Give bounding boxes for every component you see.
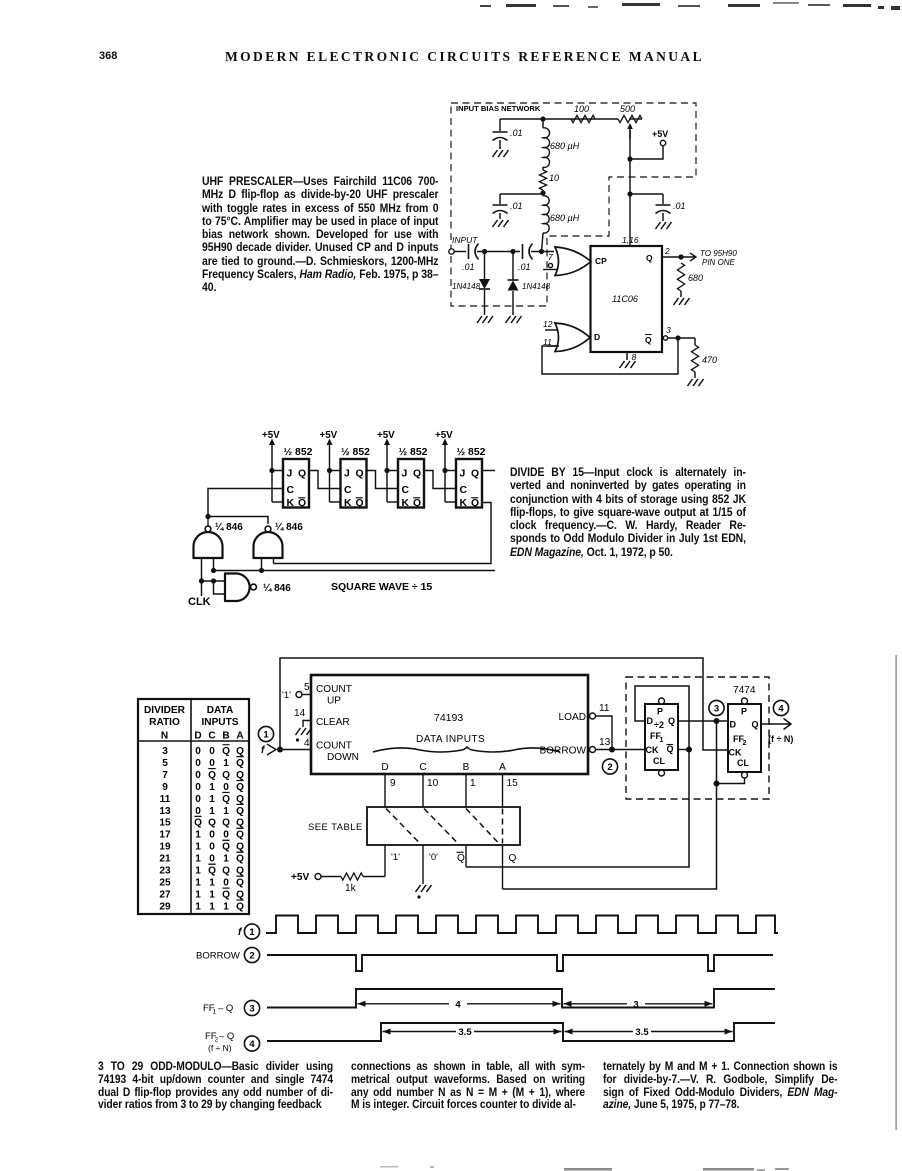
svg-text:CL: CL xyxy=(653,756,665,766)
svg-text:0: 0 xyxy=(223,782,229,793)
svg-text:8: 8 xyxy=(632,352,637,362)
svg-text:680: 680 xyxy=(688,273,703,283)
svg-text:'1': '1' xyxy=(391,852,400,863)
svg-text:TO 95H90: TO 95H90 xyxy=(700,249,737,258)
svg-text:D: D xyxy=(194,731,201,742)
svg-text:1: 1 xyxy=(195,854,201,865)
svg-text:Q: Q xyxy=(667,744,674,754)
svg-text:D: D xyxy=(730,720,737,730)
svg-text:Q: Q xyxy=(236,806,244,817)
svg-text:Q: Q xyxy=(236,746,244,757)
svg-text:0: 0 xyxy=(223,877,229,888)
svg-text:13: 13 xyxy=(599,737,611,748)
svg-text:Q: Q xyxy=(236,758,244,769)
svg-text:SQUARE WAVE ÷ 15: SQUARE WAVE ÷ 15 xyxy=(331,581,432,593)
svg-text:(f ÷ N): (f ÷ N) xyxy=(768,734,793,744)
svg-text:3: 3 xyxy=(633,999,638,1010)
svg-text:D: D xyxy=(647,716,654,726)
svg-text:Q: Q xyxy=(356,498,364,509)
svg-text:PIN ONE: PIN ONE xyxy=(702,258,736,267)
svg-text:C: C xyxy=(287,485,295,496)
svg-text:.01: .01 xyxy=(510,128,523,138)
svg-text:2: 2 xyxy=(743,740,747,747)
svg-text:+5V: +5V xyxy=(377,430,395,441)
svg-text:B: B xyxy=(463,762,470,773)
svg-text:'1': '1' xyxy=(282,690,291,701)
svg-text:Q: Q xyxy=(222,818,230,829)
svg-text:1: 1 xyxy=(195,889,201,900)
svg-text:23: 23 xyxy=(159,866,171,877)
svg-text:1: 1 xyxy=(195,866,201,877)
svg-text:f: f xyxy=(238,927,243,938)
svg-text:D: D xyxy=(594,332,600,342)
svg-text:7: 7 xyxy=(162,770,168,781)
svg-text:100: 100 xyxy=(574,104,589,114)
svg-text:CK: CK xyxy=(646,745,659,755)
svg-text:17: 17 xyxy=(159,830,171,841)
svg-text:0: 0 xyxy=(209,758,215,769)
svg-text:C: C xyxy=(402,485,410,496)
svg-text:CLEAR: CLEAR xyxy=(316,717,350,728)
svg-text:¼ 846: ¼ 846 xyxy=(263,583,291,594)
svg-text:¼ 846: ¼ 846 xyxy=(215,522,243,533)
svg-text:Q: Q xyxy=(646,253,653,263)
svg-text:RATIO: RATIO xyxy=(149,717,180,728)
svg-text:0: 0 xyxy=(195,782,201,793)
svg-text:(f ÷ N): (f ÷ N) xyxy=(208,1043,232,1053)
svg-text:11: 11 xyxy=(599,703,610,714)
svg-text:0: 0 xyxy=(195,794,201,805)
svg-text:.01: .01 xyxy=(462,262,475,272)
svg-text:0: 0 xyxy=(209,830,215,841)
svg-text:INPUT BIAS NETWORK: INPUT BIAS NETWORK xyxy=(456,104,541,113)
svg-text:C: C xyxy=(208,731,216,742)
svg-text:1: 1 xyxy=(223,758,229,769)
svg-text:1: 1 xyxy=(195,842,201,853)
svg-text:DOWN: DOWN xyxy=(327,752,359,763)
svg-text:– Q: – Q xyxy=(219,1031,234,1042)
svg-text:680 µH: 680 µH xyxy=(550,213,580,223)
svg-text:J: J xyxy=(460,469,466,480)
svg-text:1: 1 xyxy=(209,806,215,817)
svg-text:Q: Q xyxy=(413,498,421,509)
svg-text:15: 15 xyxy=(159,818,171,829)
svg-text:A: A xyxy=(236,731,244,742)
svg-text:SEE TABLE: SEE TABLE xyxy=(308,821,363,832)
svg-text:0: 0 xyxy=(209,854,215,865)
svg-text:1: 1 xyxy=(223,854,229,865)
svg-text:1: 1 xyxy=(209,794,215,805)
svg-text:4: 4 xyxy=(304,738,310,749)
svg-text:2: 2 xyxy=(664,246,670,256)
svg-text:Q: Q xyxy=(457,853,465,864)
svg-text:K: K xyxy=(287,498,295,509)
svg-text:K: K xyxy=(402,498,410,509)
svg-text:'0': '0' xyxy=(429,852,438,863)
svg-text:3: 3 xyxy=(162,746,168,757)
svg-text:CP: CP xyxy=(595,256,607,266)
svg-text:P: P xyxy=(657,707,663,717)
svg-text:1: 1 xyxy=(263,729,269,740)
svg-text:+5V: +5V xyxy=(652,129,668,139)
svg-text:Q: Q xyxy=(236,866,244,877)
svg-text:D: D xyxy=(381,762,388,773)
svg-text:Q: Q xyxy=(236,854,244,865)
svg-text:12: 12 xyxy=(543,319,553,329)
svg-text:15: 15 xyxy=(507,778,519,789)
svg-text:1: 1 xyxy=(209,877,215,888)
svg-text:BORROW: BORROW xyxy=(539,746,586,757)
svg-text:680 µH: 680 µH xyxy=(550,141,580,151)
svg-text:29: 29 xyxy=(159,901,171,912)
svg-text:3: 3 xyxy=(666,325,671,335)
svg-text:1: 1 xyxy=(660,737,664,744)
svg-text:1k: 1k xyxy=(345,883,357,894)
svg-text:CLK: CLK xyxy=(188,596,211,608)
svg-text:INPUTS: INPUTS xyxy=(201,717,238,728)
svg-text:4: 4 xyxy=(778,703,784,714)
svg-text:0: 0 xyxy=(195,770,201,781)
svg-text:Q: Q xyxy=(236,877,244,888)
svg-text:21: 21 xyxy=(159,854,171,865)
svg-text:Q: Q xyxy=(471,498,479,509)
svg-text:+5V: +5V xyxy=(320,430,338,441)
svg-text:Q: Q xyxy=(298,469,306,480)
svg-text:Q: Q xyxy=(222,842,230,853)
svg-text:Q: Q xyxy=(413,469,421,480)
svg-text:3: 3 xyxy=(714,703,719,714)
svg-text:Q: Q xyxy=(236,889,244,900)
svg-text:1: 1 xyxy=(213,1009,217,1016)
svg-text:9: 9 xyxy=(390,778,396,789)
svg-text:Q: Q xyxy=(236,842,244,853)
svg-text:0: 0 xyxy=(209,746,215,757)
svg-text:÷2: ÷2 xyxy=(654,720,664,730)
svg-text:Q: Q xyxy=(222,746,230,757)
svg-text:N: N xyxy=(161,731,168,742)
svg-text:Q: Q xyxy=(471,469,479,480)
svg-text:½ 852: ½ 852 xyxy=(284,447,313,458)
svg-text:0: 0 xyxy=(195,758,201,769)
svg-text:Q: Q xyxy=(208,818,216,829)
svg-text:Q: Q xyxy=(222,770,230,781)
svg-text:Q: Q xyxy=(208,770,216,781)
svg-text:1: 1 xyxy=(223,806,229,817)
svg-text:Q: Q xyxy=(222,794,230,805)
svg-text:1: 1 xyxy=(470,778,476,789)
svg-text:K: K xyxy=(460,498,468,509)
svg-text:LOAD: LOAD xyxy=(559,712,587,723)
svg-text:5: 5 xyxy=(162,758,168,769)
svg-text:Q: Q xyxy=(509,853,517,864)
svg-text:Q: Q xyxy=(236,818,244,829)
svg-text:7: 7 xyxy=(548,252,553,262)
svg-text:Q: Q xyxy=(668,716,675,726)
svg-text:3: 3 xyxy=(249,1003,254,1014)
svg-text:Q: Q xyxy=(645,335,652,345)
svg-text:Q: Q xyxy=(236,794,244,805)
svg-text:1: 1 xyxy=(195,877,201,888)
svg-text:1: 1 xyxy=(195,901,201,912)
svg-text:CK: CK xyxy=(729,748,742,758)
svg-text:J: J xyxy=(287,469,293,480)
svg-text:Q: Q xyxy=(194,818,202,829)
svg-text:.01: .01 xyxy=(510,201,523,211)
svg-text:B: B xyxy=(222,731,229,742)
svg-text:½ 852: ½ 852 xyxy=(399,447,428,458)
svg-text:7474: 7474 xyxy=(733,685,756,696)
svg-text:A: A xyxy=(499,762,506,773)
svg-text:C: C xyxy=(344,485,352,496)
svg-text:DIVIDER: DIVIDER xyxy=(144,705,186,716)
svg-text:Q: Q xyxy=(222,866,230,877)
svg-text:CL: CL xyxy=(737,758,749,768)
svg-text:+5V: +5V xyxy=(262,430,280,441)
svg-text:1: 1 xyxy=(249,927,255,938)
svg-text:27: 27 xyxy=(159,889,171,900)
svg-text:J: J xyxy=(402,469,408,480)
svg-text:Q: Q xyxy=(222,889,230,900)
svg-text:4: 4 xyxy=(249,1039,255,1050)
svg-text:74193: 74193 xyxy=(434,712,463,724)
svg-text:Q: Q xyxy=(236,901,244,912)
svg-text:1,16: 1,16 xyxy=(622,235,639,245)
svg-text:Q: Q xyxy=(208,866,216,877)
svg-text:f: f xyxy=(261,745,266,756)
svg-text:0: 0 xyxy=(195,746,201,757)
svg-text:3.5: 3.5 xyxy=(635,1027,649,1038)
svg-text:2: 2 xyxy=(249,950,254,961)
svg-text:500: 500 xyxy=(620,104,635,114)
svg-text:¼ 846: ¼ 846 xyxy=(275,522,303,533)
svg-text:J: J xyxy=(344,469,350,480)
svg-text:14: 14 xyxy=(294,708,306,719)
svg-text:0: 0 xyxy=(209,842,215,853)
svg-text:1: 1 xyxy=(209,782,215,793)
svg-text:1: 1 xyxy=(209,889,215,900)
svg-text:DATA INPUTS: DATA INPUTS xyxy=(416,734,485,745)
svg-text:470: 470 xyxy=(702,355,717,365)
svg-text:9: 9 xyxy=(162,782,168,793)
svg-text:.01: .01 xyxy=(518,262,531,272)
svg-text:DATA: DATA xyxy=(207,705,234,716)
svg-text:+5V: +5V xyxy=(435,430,453,441)
svg-text:10: 10 xyxy=(549,173,559,183)
svg-text:1N4148: 1N4148 xyxy=(522,282,551,291)
svg-text:C: C xyxy=(419,762,426,773)
svg-text:BORROW: BORROW xyxy=(196,951,240,962)
svg-text:25: 25 xyxy=(159,877,171,888)
svg-text:3.5: 3.5 xyxy=(458,1027,472,1038)
svg-text:UP: UP xyxy=(327,696,341,707)
svg-text:1: 1 xyxy=(195,830,201,841)
svg-text:1: 1 xyxy=(223,901,229,912)
svg-text:COUNT: COUNT xyxy=(316,741,352,752)
svg-text:½ 852: ½ 852 xyxy=(457,447,486,458)
svg-text:1: 1 xyxy=(209,901,215,912)
svg-text:INPUT: INPUT xyxy=(452,235,478,245)
svg-text:P: P xyxy=(741,707,747,717)
svg-text:10: 10 xyxy=(427,778,439,789)
svg-text:0: 0 xyxy=(195,806,201,817)
svg-text:Q: Q xyxy=(236,782,244,793)
svg-text:Q: Q xyxy=(236,830,244,841)
svg-text:½ 852: ½ 852 xyxy=(341,447,370,458)
svg-text:Q: Q xyxy=(236,770,244,781)
svg-text:5: 5 xyxy=(304,682,310,693)
svg-text:Q: Q xyxy=(356,469,364,480)
svg-text:– Q: – Q xyxy=(218,1003,233,1014)
svg-text:+5V: +5V xyxy=(291,872,310,883)
svg-text:19: 19 xyxy=(159,842,171,853)
svg-text:2: 2 xyxy=(607,762,612,773)
svg-text:1N4148: 1N4148 xyxy=(452,282,481,291)
svg-text:Q: Q xyxy=(298,498,306,509)
svg-text:13: 13 xyxy=(159,806,171,817)
svg-text:11C06: 11C06 xyxy=(612,294,638,304)
svg-text:.01: .01 xyxy=(673,201,686,211)
svg-text:C: C xyxy=(460,485,468,496)
svg-text:4: 4 xyxy=(455,999,461,1010)
svg-text:COUNT: COUNT xyxy=(316,684,352,695)
svg-text:Q: Q xyxy=(752,720,759,730)
svg-text:K: K xyxy=(344,498,352,509)
svg-text:11: 11 xyxy=(160,794,171,805)
svg-text:0: 0 xyxy=(223,830,229,841)
